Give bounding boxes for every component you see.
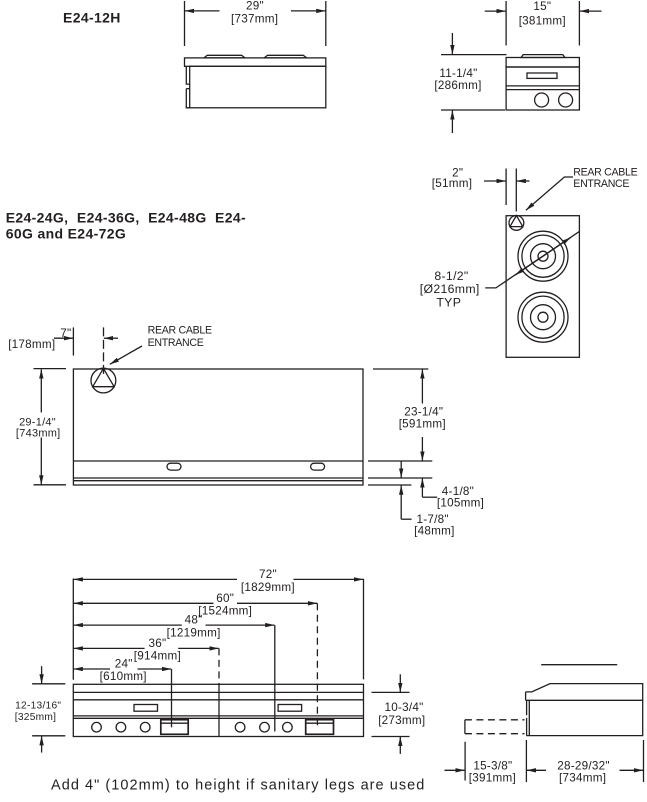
svg-text:E24-24G, E24-36G, E24-48G E: E24-24G, E24-36G, E24-48G E24- [6,209,246,225]
svg-text:60": 60" [216,592,234,605]
svg-text:[610mm]: [610mm] [100,670,147,683]
svg-text:48": 48" [185,614,203,627]
svg-text:15": 15" [533,0,551,13]
svg-text:12-13/16": 12-13/16" [15,701,61,712]
svg-text:Add 4" (102mm) to height if sa: Add 4" (102mm) to height if sanitary leg… [51,778,425,794]
svg-text:[325mm]: [325mm] [15,712,56,723]
svg-text:[1829mm]: [1829mm] [241,581,295,594]
svg-text:36": 36" [148,637,166,650]
svg-text:[105mm]: [105mm] [437,496,484,509]
svg-text:[286mm]: [286mm] [434,79,481,92]
svg-text:[1219mm]: [1219mm] [167,626,221,639]
svg-text:REAR CABLE: REAR CABLE [573,166,637,178]
svg-text:REAR CABLE: REAR CABLE [148,325,212,337]
svg-text:E24-12H: E24-12H [63,10,121,26]
svg-text:[391mm]: [391mm] [469,771,516,784]
svg-text:ENTRANCE: ENTRANCE [148,337,204,349]
svg-text:ENTRANCE: ENTRANCE [573,178,629,190]
svg-text:[591mm]: [591mm] [399,418,446,431]
svg-text:[178mm]: [178mm] [8,338,55,351]
svg-text:29-1/4": 29-1/4" [19,416,56,428]
svg-text:[48mm]: [48mm] [414,524,454,537]
svg-text:[737mm]: [737mm] [231,12,278,25]
svg-text:[914mm]: [914mm] [134,650,181,663]
svg-text:8-1/2": 8-1/2" [434,269,468,283]
svg-text:23-1/4": 23-1/4" [404,405,443,418]
svg-text:TYP: TYP [436,296,461,310]
svg-text:[1524mm]: [1524mm] [198,605,252,618]
svg-text:[273mm]: [273mm] [378,714,425,727]
svg-text:60G and E24-72G: 60G and E24-72G [6,226,126,242]
svg-text:10-3/4": 10-3/4" [384,701,423,714]
svg-text:29": 29" [246,0,264,12]
svg-text:[51mm]: [51mm] [432,177,472,190]
svg-text:[381mm]: [381mm] [519,14,566,27]
svg-text:72": 72" [259,568,277,581]
svg-text:7": 7" [60,327,71,340]
svg-text:24": 24" [115,658,133,671]
svg-text:[743mm]: [743mm] [16,428,61,440]
svg-text:[Ø216mm]: [Ø216mm] [420,282,480,296]
svg-text:[734mm]: [734mm] [559,771,606,784]
